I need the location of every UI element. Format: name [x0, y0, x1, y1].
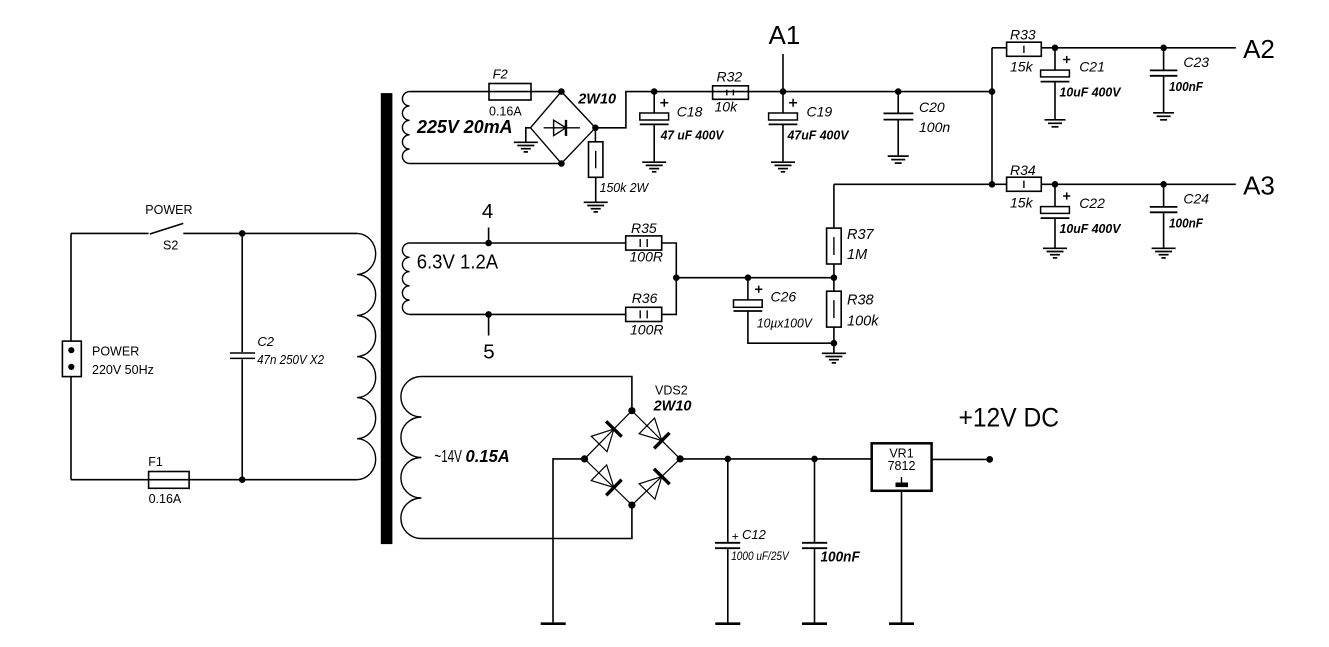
capacitor C20 [884, 92, 914, 156]
svg-text:47n 250V X2: 47n 250V X2 [257, 352, 325, 367]
svg-text:7812: 7812 [888, 459, 916, 473]
node 100nF [811, 456, 818, 463]
node bottom-left junction [239, 476, 246, 483]
svg-text:10µx100V: 10µx100V [757, 316, 813, 331]
node C22 [1052, 181, 1059, 188]
wire R33 to A2 [1041, 47, 1236, 49]
resistor 150k 2W [589, 142, 603, 178]
svg-text:F2: F2 [493, 66, 509, 81]
node VDS2 right [677, 455, 684, 462]
capacitor C24 [1150, 184, 1178, 247]
node bridge top [558, 88, 565, 95]
node pin5 [485, 311, 492, 318]
svg-text:C23: C23 [1183, 54, 1209, 70]
svg-text:100R: 100R [630, 322, 663, 338]
capacitor C26 [734, 278, 834, 344]
transformer winding 14V [401, 377, 422, 539]
node C24 [1160, 181, 1167, 188]
capacitor C2 [230, 233, 255, 479]
wire 6.3V bottom [410, 313, 626, 315]
svg-text:R32: R32 [717, 69, 743, 85]
svg-text:100nF: 100nF [1169, 79, 1204, 94]
node mid junction [673, 274, 680, 281]
wire right vertical [991, 48, 993, 185]
diode D3 (left-bottom) [591, 465, 621, 495]
wire mains bottom to F1 [71, 479, 242, 481]
svg-text:2W10: 2W10 [577, 92, 616, 108]
svg-text:C20: C20 [919, 99, 945, 115]
svg-text:VDS2: VDS2 [655, 384, 688, 398]
svg-text:2W10: 2W10 [653, 399, 692, 415]
capacitor C12 [715, 459, 740, 623]
wire node to primary [242, 232, 357, 234]
fuse F1 [149, 472, 190, 489]
svg-text:47uF 400V: 47uF 400V [787, 127, 850, 142]
node bridge bottom [558, 160, 565, 167]
transformer winding 225V [402, 92, 409, 164]
transformer primary winding [357, 233, 376, 479]
wire VR1 ground [901, 491, 903, 623]
node C21 [1052, 45, 1059, 52]
svg-text:C22: C22 [1079, 195, 1105, 211]
regulator VR1 [872, 443, 932, 491]
svg-text:4: 4 [482, 200, 493, 223]
resistor R32 [713, 86, 749, 100]
capacitor C23 [1150, 48, 1178, 112]
resistor R36 [626, 307, 662, 321]
svg-text:C19: C19 [807, 104, 833, 120]
node top-left junction [239, 230, 246, 237]
svg-text:C18: C18 [677, 104, 703, 120]
transformer core [381, 93, 393, 544]
ground (C24) [1152, 248, 1176, 258]
svg-text:100nF: 100nF [1169, 216, 1204, 231]
resistor R34 [1007, 177, 1042, 191]
svg-text:6.3V 1.2A: 6.3V 1.2A [417, 252, 499, 274]
resistor R38 [827, 278, 842, 327]
wire VDS2 bottom to winding [421, 505, 632, 538]
wire 150k top [594, 128, 596, 142]
node C23 [1160, 45, 1167, 52]
bridge rectifier 2W10 [531, 92, 596, 164]
node R38 bottom [831, 340, 838, 347]
wire mid horizontal [676, 277, 834, 279]
svg-text:100n: 100n [919, 119, 950, 135]
svg-text:~14V: ~14V [434, 446, 462, 466]
diode D4 (bottom-right) [639, 469, 669, 499]
diode D1 (left-top) [591, 421, 621, 451]
wire R35 to node [662, 243, 677, 278]
fuse F2 [489, 84, 531, 101]
ground (C23) [1153, 113, 1174, 120]
resistor R33 [1007, 42, 1042, 56]
svg-text:C21: C21 [1079, 59, 1105, 75]
capacitor C21 [1041, 48, 1071, 119]
node pin4 [485, 240, 492, 247]
svg-text:R36: R36 [632, 290, 658, 306]
wire to R33 [992, 47, 1007, 49]
pin 4 tick [488, 228, 490, 244]
svg-text:R33: R33 [1010, 26, 1036, 42]
ground (C21) [1045, 120, 1066, 127]
node VDS2 bottom [628, 502, 635, 509]
svg-text:C24: C24 [1183, 191, 1209, 207]
wire VDS2 right to VR1 [680, 458, 872, 460]
wire node to primary bottom [242, 479, 357, 481]
svg-text:F1: F1 [148, 455, 163, 469]
ground (C18) [642, 162, 666, 172]
wire R37 bottom [833, 264, 835, 278]
wire to R34 [992, 183, 1007, 185]
svg-text:A2: A2 [1243, 34, 1275, 64]
svg-text:100k: 100k [847, 314, 879, 330]
svg-text:R37: R37 [847, 227, 875, 243]
ground bar (left) [541, 622, 566, 625]
wire 6.3V top [410, 242, 626, 244]
resistor R37 [827, 228, 842, 264]
resistor R35 [626, 236, 662, 250]
ground bar (100nF) [802, 622, 827, 625]
svg-text:100nF: 100nF [821, 550, 861, 566]
svg-text:POWER: POWER [92, 344, 139, 358]
svg-text:47 uF 400V: 47 uF 400V [660, 127, 725, 142]
node +12V terminal [986, 456, 993, 463]
svg-text:100R: 100R [630, 249, 663, 265]
svg-text:10k: 10k [715, 99, 739, 115]
wire VR1 out [932, 458, 990, 460]
svg-text:1M: 1M [847, 247, 868, 263]
svg-text:15k: 15k [1010, 59, 1034, 75]
ground (C19) [771, 162, 795, 172]
diode D2 (top-right) [639, 418, 669, 448]
wire 225V bottom [410, 163, 562, 165]
wire R34 to A3 [1041, 183, 1236, 185]
node rail right [989, 88, 996, 95]
svg-text:R35: R35 [631, 220, 657, 236]
svg-text:225V 20mA: 225V 20mA [416, 116, 513, 137]
ground (C22) [1043, 248, 1067, 258]
node VDS2 left [581, 455, 588, 462]
svg-text:+: + [732, 529, 739, 543]
wire bridge left to ground [526, 128, 531, 142]
svg-text:A1: A1 [769, 20, 801, 50]
node VDS2 top [628, 407, 635, 414]
wire R37 top [833, 184, 835, 228]
svg-text:10uF 400V: 10uF 400V [1060, 85, 1122, 100]
svg-text:+12V DC: +12V DC [959, 402, 1060, 432]
node A1 [780, 54, 787, 95]
bridge VDS2 diamond [585, 411, 681, 505]
pin 5 tick [488, 314, 490, 335]
svg-text:R34: R34 [1010, 162, 1036, 178]
wire bridge out to rail [595, 92, 992, 128]
svg-text:R38: R38 [847, 293, 874, 309]
wire 225V top [410, 91, 562, 93]
capacitor 100nF [802, 459, 827, 623]
svg-text:A3: A3 [1243, 170, 1275, 200]
wire R37 top rail [834, 183, 992, 185]
svg-text:0.16A: 0.16A [489, 105, 522, 119]
ground bar (VR1) [889, 622, 914, 625]
wire mains top [71, 232, 149, 234]
switch S2 [150, 223, 184, 234]
svg-text:15k: 15k [1010, 195, 1034, 211]
svg-text:5: 5 [483, 341, 494, 364]
svg-text:S2: S2 [163, 239, 178, 253]
wire VDS2 left to ground [553, 459, 585, 623]
ground (C20) [888, 156, 909, 163]
svg-text:C12: C12 [742, 527, 767, 542]
node C20 [895, 88, 902, 95]
svg-text:1000 uF/25V: 1000 uF/25V [731, 549, 789, 563]
transformer winding 6.3V [402, 243, 409, 314]
node rail right lower [989, 181, 996, 188]
capacitor C18 [640, 92, 669, 162]
svg-text:220V 50Hz: 220V 50Hz [92, 363, 154, 377]
svg-text:C26: C26 [771, 289, 797, 305]
node C12 [725, 456, 732, 463]
capacitor C19 [769, 92, 798, 162]
wire mains left vertical [70, 233, 72, 341]
connector POWER 220V 50Hz [62, 341, 81, 377]
node bridge right [592, 125, 599, 132]
node C26 top [745, 274, 752, 281]
svg-text:POWER: POWER [145, 203, 192, 217]
capacitor C22 [1041, 184, 1071, 247]
wire R36 to node [662, 278, 677, 315]
svg-text:0.16A: 0.16A [149, 492, 182, 506]
ground (R38) [822, 353, 846, 363]
wire connector down [70, 377, 72, 480]
wire 150k bottom [595, 177, 597, 201]
node R37/R38 [831, 274, 838, 281]
svg-text:150k 2W: 150k 2W [600, 180, 650, 195]
svg-text:C2: C2 [257, 334, 274, 349]
wire R38 bottom [833, 327, 835, 352]
ground bar (C12) [715, 622, 740, 625]
wire switch to node [183, 232, 242, 234]
ground (bridge left) [514, 142, 538, 152]
svg-text:10uF 400V: 10uF 400V [1060, 221, 1122, 236]
svg-text:0.15A: 0.15A [466, 446, 510, 466]
wire 14V top to bridge [421, 377, 632, 411]
ground (150k) [584, 202, 608, 212]
node C18 [651, 88, 658, 95]
